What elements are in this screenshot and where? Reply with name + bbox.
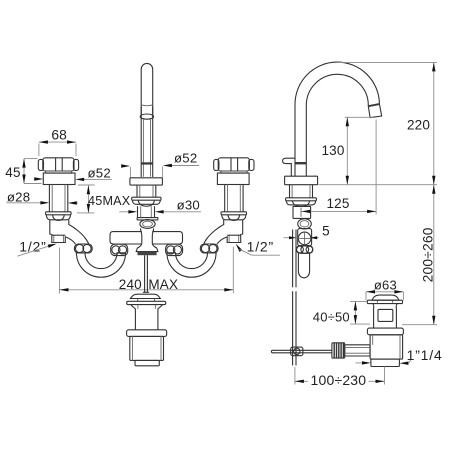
svg-text:ø28: ø28 — [7, 189, 30, 204]
svg-text:45MAX: 45MAX — [88, 194, 131, 208]
tee left union rings — [111, 244, 128, 255]
side drain body — [370, 335, 403, 359]
spout shank flange — [137, 218, 158, 220]
side mounting nut — [286, 198, 317, 207]
drain lower body — [130, 336, 164, 365]
svg-text:200÷260: 200÷260 — [420, 227, 435, 282]
dimension 45 (left handle height) — [5, 159, 41, 184]
side handle lever — [283, 158, 295, 176]
svg-text:MAX: MAX — [148, 277, 178, 292]
spout flange — [130, 178, 163, 185]
rod strap — [298, 253, 309, 278]
riser joint band — [295, 162, 307, 164]
svg-text:125: 125 — [326, 196, 349, 211]
dimension 200/260 — [402, 185, 437, 325]
right handle neck ring — [221, 171, 247, 173]
tee right union rings — [166, 244, 183, 255]
svg-text:40÷50: 40÷50 — [313, 310, 350, 325]
label diam63 — [366, 278, 403, 301]
rod clamp wheel — [296, 246, 312, 254]
drain upper body — [131, 305, 163, 330]
label 1/2 inch right — [236, 238, 280, 255]
svg-text:68: 68 — [51, 128, 67, 143]
tee horizontal bar — [110, 232, 183, 244]
dimension 5 (rod) — [284, 224, 330, 240]
rod clevis frame — [298, 229, 312, 246]
dimension 130 — [321, 117, 373, 184]
svg-text:130: 130 — [321, 143, 344, 158]
dimension 100/230 — [295, 367, 385, 388]
svg-text:45: 45 — [5, 165, 20, 180]
label diam52 spout flange — [121, 151, 199, 178]
spout threaded shank — [137, 185, 156, 197]
side drain collar — [367, 328, 403, 335]
lever rod horizontal — [271, 347, 332, 356]
spout nozzle — [368, 103, 382, 118]
side body block — [293, 206, 311, 218]
left handle neck ring — [46, 171, 72, 173]
pop-up rod (front) — [143, 255, 149, 292]
svg-text:ø52: ø52 — [88, 166, 111, 181]
right handle head — [214, 158, 254, 171]
side ball joint — [298, 219, 312, 229]
side drain outlet — [371, 359, 400, 366]
dimension 125 — [302, 120, 377, 215]
dimension 68 (left handle width) — [39, 128, 76, 157]
drain top flange — [127, 301, 166, 304]
left handle mounting nut — [46, 212, 72, 221]
label diam52 left handle — [34, 166, 112, 182]
left elbow union rings — [74, 244, 92, 253]
deck plate (side) — [285, 176, 318, 185]
svg-text:100÷230: 100÷230 — [310, 372, 366, 388]
label diam28 — [7, 189, 79, 204]
label 1 1/4 inch — [356, 347, 443, 365]
dimension 40/50 — [313, 301, 370, 324]
right inlet elbow — [204, 220, 243, 244]
drain horizontal arm — [345, 345, 370, 356]
right elbow union rings — [200, 244, 218, 253]
spout ball joint — [140, 220, 155, 229]
deck extension line — [319, 184, 438, 186]
spout mounting nut — [132, 197, 161, 206]
side drain neck + window — [373, 304, 397, 329]
svg-text:ø52: ø52 — [174, 151, 197, 166]
dimension 220 — [407, 62, 436, 184]
spout gooseneck (side) — [295, 62, 379, 176]
spout lower shank (diam 30) — [138, 206, 155, 217]
top extension line — [337, 61, 437, 63]
dimension 45MAX — [77, 185, 131, 213]
right U-tube — [167, 253, 216, 277]
left handle base (diam 52) — [43, 173, 75, 185]
drain collar — [127, 330, 167, 337]
knurled coupling — [332, 343, 345, 358]
svg-text:1”1/4: 1”1/4 — [407, 347, 443, 363]
right handle base — [217, 173, 249, 185]
left inlet elbow — [50, 220, 89, 244]
left handle head — [38, 158, 78, 171]
drain knob — [130, 294, 160, 301]
spout tube (front) — [140, 63, 153, 177]
right handle threaded shaft — [225, 185, 243, 212]
left handle threaded shaft (diam 28) — [49, 185, 67, 212]
side threaded shank — [290, 185, 313, 198]
svg-text:ø63: ø63 — [374, 278, 397, 293]
dimension 240 MAX — [60, 247, 234, 294]
pop-up rod (side) — [293, 230, 296, 366]
svg-text:240: 240 — [119, 277, 142, 292]
svg-text:ø30: ø30 — [177, 198, 200, 213]
left U-tube — [76, 253, 125, 277]
right handle mounting nut — [221, 212, 247, 221]
svg-text:5: 5 — [322, 224, 330, 239]
svg-text:220: 220 — [407, 117, 430, 132]
label 1/2 inch left — [17, 238, 57, 256]
side drain cap — [367, 295, 402, 304]
svg-text:1/2”: 1/2” — [19, 238, 46, 254]
label diam30 — [119, 198, 201, 214]
tee body center — [136, 228, 158, 255]
svg-text:1/2”: 1/2” — [247, 238, 274, 254]
